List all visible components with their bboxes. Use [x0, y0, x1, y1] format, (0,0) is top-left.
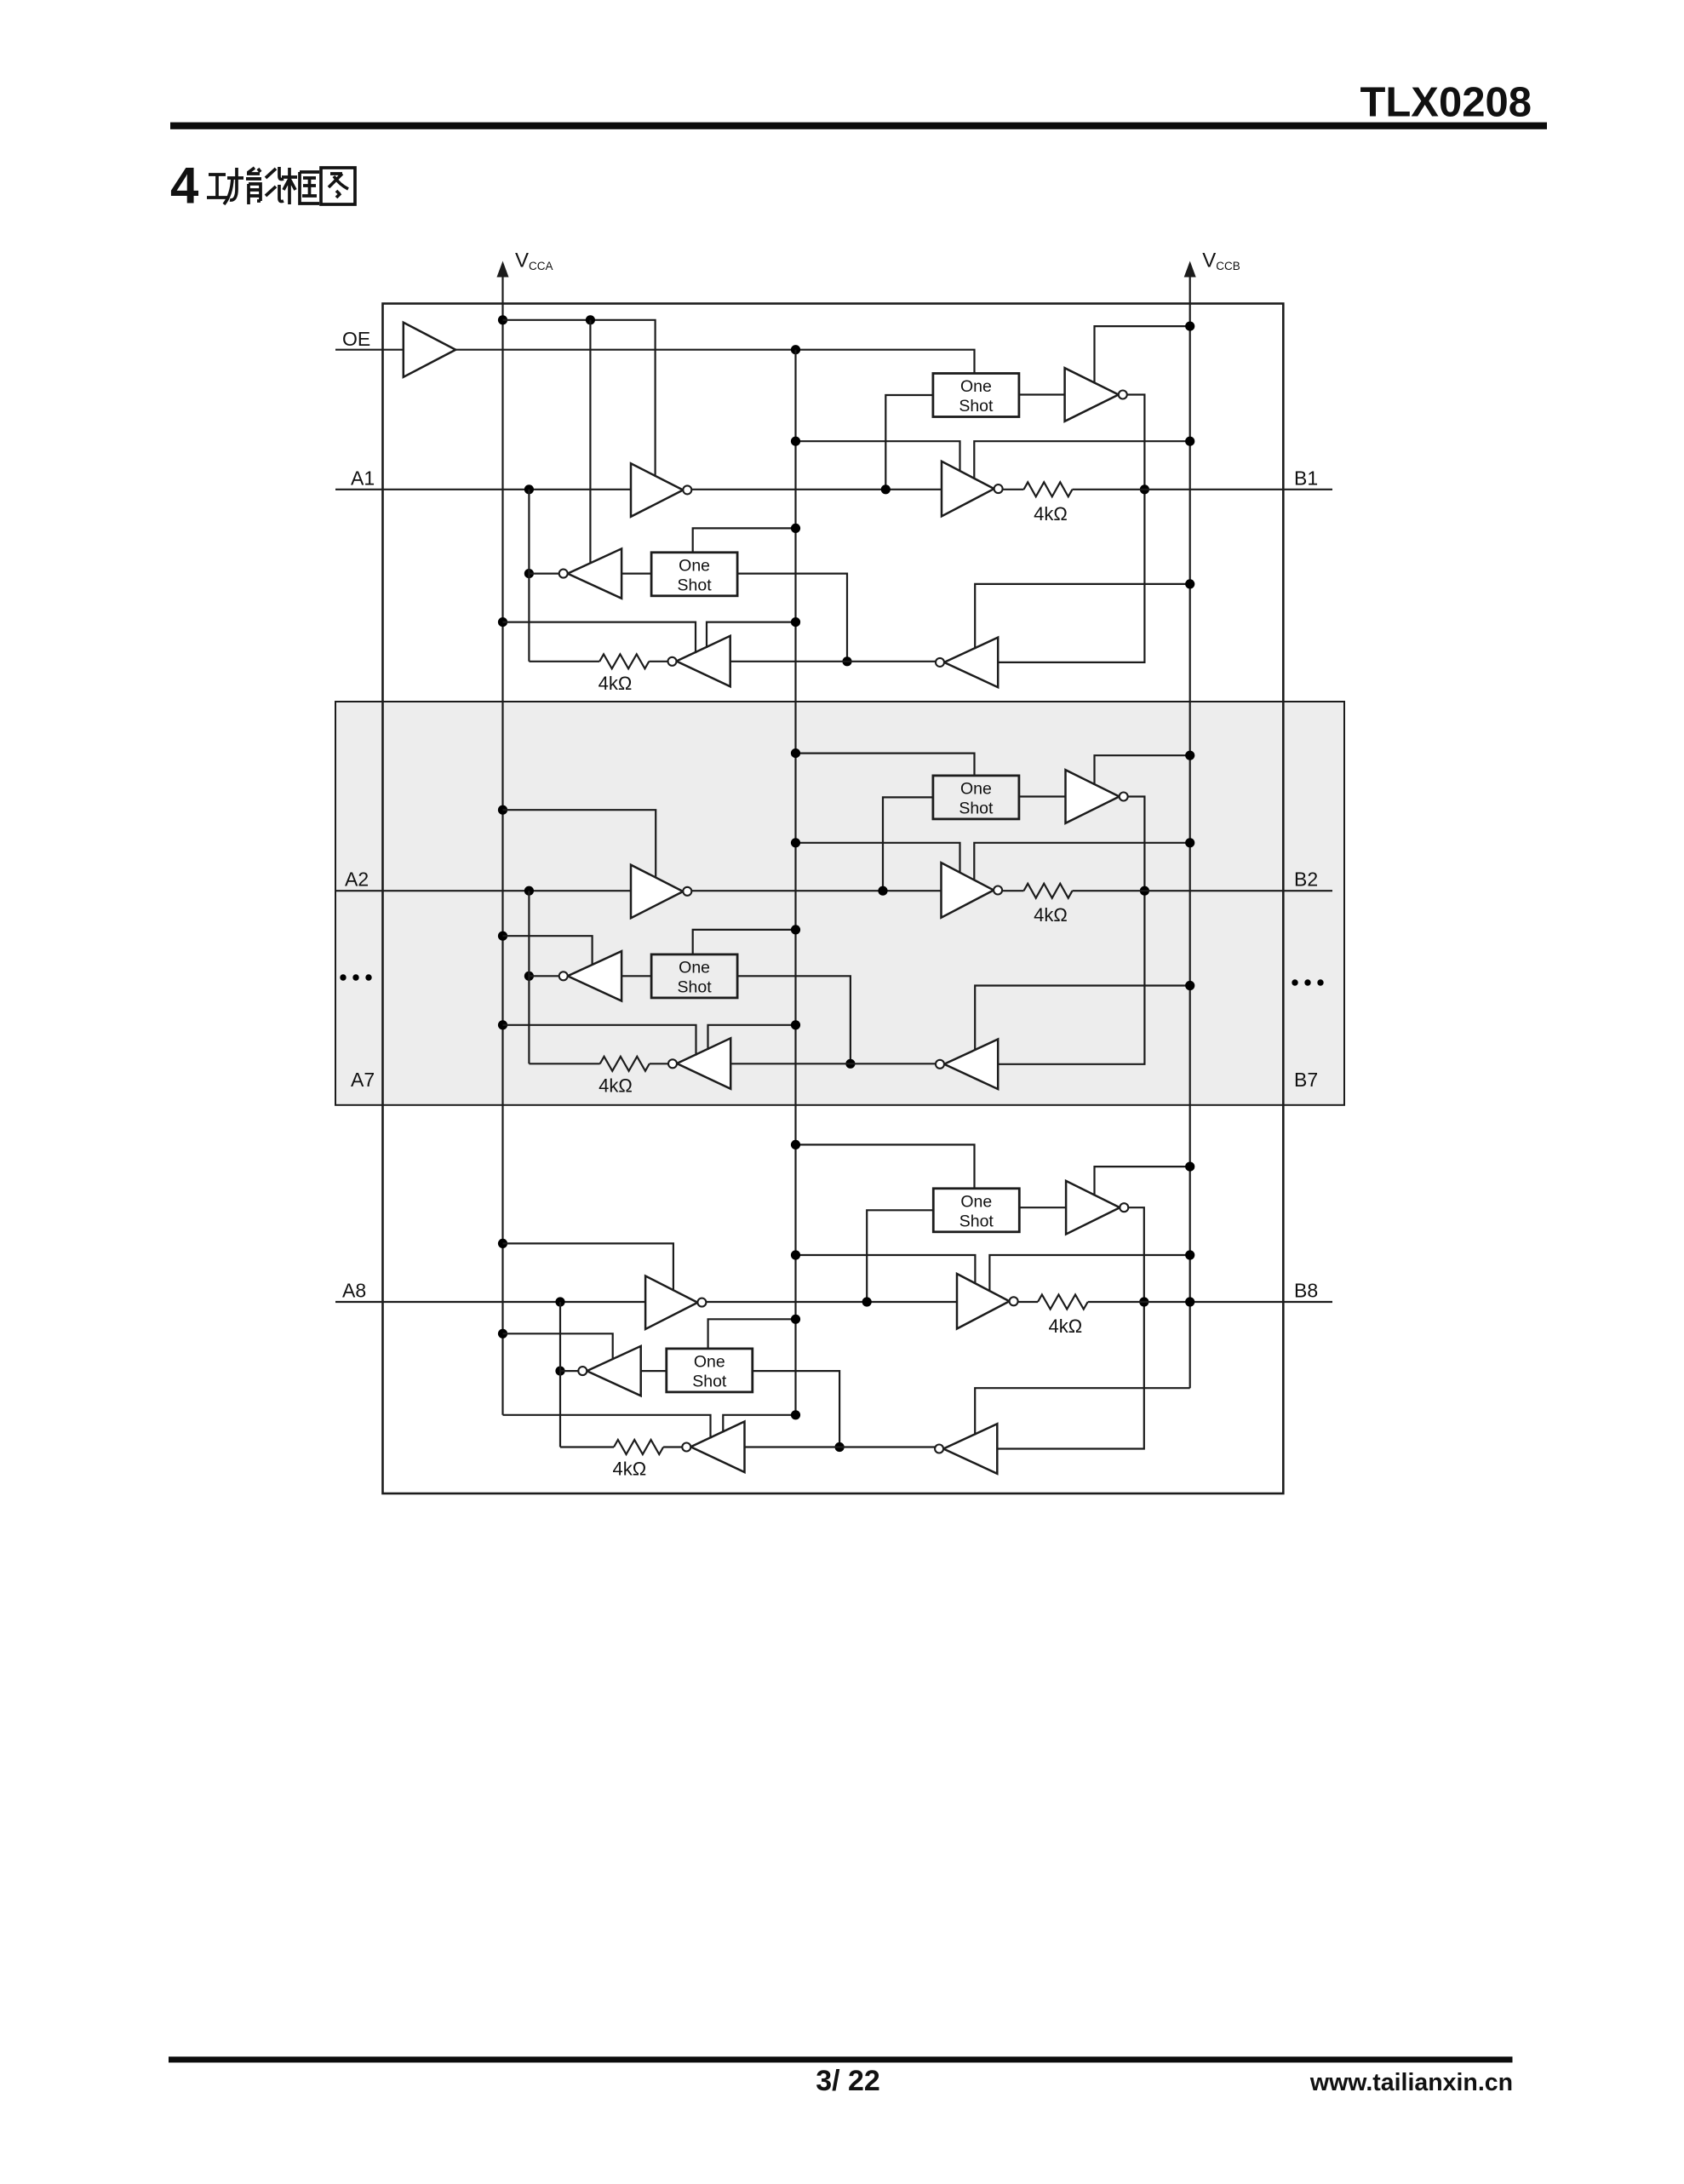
- svg-text:4kΩ: 4kΩ: [599, 1075, 633, 1096]
- wire B8 pad line: [1088, 1301, 1332, 1303]
- wire B1 recv enable: [975, 584, 1190, 649]
- junction enable-net B8: [791, 1250, 800, 1259]
- wire B1 feedback: [998, 395, 1144, 662]
- wire one-shot B8 out: [1019, 1207, 1066, 1208]
- inverter B1 receiver: [944, 638, 998, 688]
- junction VCCA enable ch8: [498, 1239, 507, 1248]
- svg-text:Shot: Shot: [959, 1212, 994, 1230]
- wire B2 feedback: [998, 797, 1144, 1064]
- wire one-shot A1 out: [737, 574, 847, 662]
- wire A8 resistor leads: [560, 1446, 614, 1447]
- svg-text:4kΩ: 4kΩ: [1034, 503, 1068, 525]
- junction A1 recv out: [524, 569, 534, 578]
- wire A8 low enable right: [723, 1415, 795, 1433]
- inverter A1 low driver: [677, 636, 730, 687]
- wire A8 driver out: [706, 1301, 867, 1303]
- wire B8 upper enable: [1095, 1167, 1190, 1195]
- wire B1 driver enable left: [796, 441, 960, 472]
- junction A8 input: [555, 1297, 564, 1306]
- svg-text:One: One: [679, 958, 710, 977]
- junction one-shot A2 out: [845, 1059, 855, 1069]
- svg-text:OE: OE: [342, 328, 370, 350]
- ellipsis right: [1292, 979, 1297, 985]
- inverter A8 driver: [645, 1276, 697, 1330]
- junction enable-net low ch2: [791, 1020, 800, 1029]
- svg-text:Shot: Shot: [959, 799, 994, 817]
- ellipsis left: [340, 974, 346, 980]
- junction A1 input: [524, 484, 534, 494]
- inverter B8 driver: [957, 1274, 1010, 1329]
- wire A8 pulldown path: [559, 1302, 561, 1447]
- junction VCCA enable ch2: [498, 805, 507, 815]
- inverter A1 receiver: [568, 548, 621, 598]
- svg-text:3/ 22: 3/ 22: [816, 2065, 880, 2097]
- shaded band channels 2-7: [335, 702, 1344, 1105]
- wire one-shot A1 trigger: [693, 528, 796, 552]
- bubble A8 receiver: [578, 1367, 587, 1375]
- junction one-shot A1 out: [842, 656, 851, 666]
- wire A2 recv out: [529, 975, 558, 977]
- junction enable-net low ch8: [791, 1410, 800, 1419]
- wire B8 drv to resistor: [1018, 1301, 1038, 1303]
- resistor 4k A2: [600, 1057, 650, 1071]
- junction VCCA low enable ch1: [498, 617, 507, 627]
- bubble A1 low driver: [668, 657, 677, 666]
- one-shot B8: [933, 1189, 1019, 1232]
- wire A8 driver enable: [503, 1243, 673, 1291]
- bubble B2 upper: [1120, 793, 1128, 801]
- svg-text:4: 4: [170, 158, 199, 215]
- wire A1 pulldown path: [528, 490, 530, 662]
- bubble B1 receiver: [936, 658, 944, 667]
- junction B8 pad: [1139, 1297, 1148, 1306]
- wire one-shot B8 trigger: [796, 1144, 975, 1188]
- wire B2 recv enable: [975, 986, 1190, 1052]
- wire A1 low enable left: [503, 622, 696, 654]
- inverter B1 driver: [942, 461, 994, 517]
- one-shot A2: [651, 954, 737, 998]
- junction enable-net B1: [791, 437, 800, 446]
- svg-text:Shot: Shot: [959, 397, 994, 416]
- wire A2 low enable right: [708, 1025, 796, 1050]
- wire A2 low enable left: [503, 1025, 696, 1056]
- junction VCCB upper enable ch8: [1185, 1162, 1194, 1172]
- junction A1 recv enable: [586, 315, 595, 324]
- wire one-shot A8 trigger: [708, 1319, 796, 1349]
- VCCA rail wire: [501, 272, 503, 1415]
- VCCB rail wire: [1189, 272, 1191, 1388]
- resistor 4k A1: [599, 654, 649, 668]
- bubble B8 upper: [1120, 1203, 1128, 1212]
- inverter A2 receiver: [568, 951, 621, 1000]
- bubble A8 driver: [697, 1298, 706, 1307]
- wire B1 driver enable right: [974, 441, 1189, 479]
- junction one-shot A2 trigger: [791, 925, 800, 934]
- junction one-shot B2 trigger: [791, 748, 800, 758]
- wire A8 low driver in: [745, 1446, 936, 1447]
- wire one-shot B8 in: [867, 1210, 933, 1302]
- one-shot A1: [651, 553, 737, 596]
- junction VCCA recv enable ch8: [498, 1329, 507, 1338]
- svg-text:B2: B2: [1294, 868, 1318, 891]
- wire B8 feedback: [997, 1207, 1144, 1448]
- junction B1 pad: [1140, 484, 1149, 494]
- wire A1 recv enable drop: [589, 320, 591, 565]
- wire B1 drv to resistor: [1003, 489, 1024, 490]
- junction enable-net B2: [791, 838, 800, 847]
- wire A1 low driver in: [730, 661, 936, 662]
- wire OE input: [335, 349, 404, 351]
- bubble A2 receiver: [559, 972, 568, 980]
- wire B1 pad line: [1073, 489, 1333, 490]
- svg-text:A8: A8: [342, 1280, 366, 1302]
- wire A1 driver enable: [503, 320, 656, 477]
- resistor 4k B2: [1024, 884, 1073, 898]
- wire mid to B1 driver: [885, 489, 942, 490]
- wire A2 recv in: [621, 975, 651, 977]
- inverter A1 driver: [631, 463, 683, 517]
- junction VCCB recv enable ch2: [1185, 981, 1194, 990]
- wire B1 upper enable: [1095, 326, 1190, 383]
- inverter B8 upper: [1066, 1181, 1120, 1235]
- heading text 功能框图 (drawn strokes): [207, 167, 355, 204]
- wire one-shot A8 out: [753, 1371, 839, 1447]
- bubble A1 receiver: [559, 570, 568, 578]
- svg-text:Shot: Shot: [678, 576, 713, 594]
- junction B8 rail crossing: [1185, 1297, 1194, 1306]
- wire A8 recv in: [641, 1370, 667, 1372]
- wire B8 driver enable left: [796, 1255, 976, 1284]
- one-shot A8: [667, 1349, 753, 1392]
- junction one-shot B8 in: [862, 1297, 872, 1306]
- wire B2 pad line: [1073, 890, 1333, 891]
- junction one-shot A8 out: [835, 1442, 845, 1452]
- wire one-shot B2 out: [1019, 795, 1066, 797]
- junction VCCB upper enable ch2: [1185, 751, 1194, 760]
- inverter A2 driver: [631, 865, 683, 918]
- bubble B1 upper: [1119, 391, 1127, 399]
- wire B8 driver enable right: [989, 1255, 1189, 1292]
- one-shot B2: [933, 776, 1019, 819]
- wire A8 recv out: [560, 1370, 578, 1372]
- wire A2 low driver in: [730, 1063, 936, 1064]
- inverter A8 receiver: [587, 1346, 640, 1396]
- bubble A8 low driver: [682, 1443, 690, 1452]
- junction one-shot B2 in: [878, 886, 887, 896]
- wire one-shot A2 trigger: [693, 930, 796, 954]
- inverter A2 low driver: [677, 1038, 730, 1089]
- svg-text:4kΩ: 4kΩ: [599, 673, 633, 694]
- svg-text:B8: B8: [1294, 1280, 1318, 1302]
- junction A2 input: [524, 886, 534, 896]
- inverter B2 driver: [942, 863, 994, 917]
- footer rule: [169, 2056, 1513, 2062]
- wire one-shot B1 in: [885, 395, 933, 490]
- wire A2 resistor leads: [529, 1063, 599, 1064]
- one-shot B1: [933, 374, 1019, 417]
- svg-text:One: One: [694, 1352, 725, 1371]
- svg-text:4kΩ: 4kΩ: [1049, 1316, 1083, 1337]
- junction VCCA enable ch1: [498, 315, 507, 324]
- wire A2 driver enable: [503, 810, 656, 878]
- resistor 4k B1: [1024, 482, 1073, 496]
- wire one-shot B1 out: [1019, 393, 1065, 395]
- svg-text:A1: A1: [351, 467, 375, 489]
- svg-text:4kΩ: 4kΩ: [612, 1459, 646, 1480]
- wire OE output to one-shot B1: [455, 350, 974, 374]
- wire VCCA turn ch8: [503, 1415, 711, 1439]
- resistor 4k B8: [1038, 1295, 1088, 1310]
- inverter B8 receiver: [943, 1424, 997, 1474]
- bubble B1 driver: [994, 484, 1003, 493]
- svg-text:www.tailianxin.cn: www.tailianxin.cn: [1309, 2069, 1513, 2096]
- bubble B2 driver: [994, 886, 1002, 895]
- wire A2 recv enable: [503, 936, 593, 966]
- inverter A8 low driver: [690, 1422, 744, 1473]
- svg-text:Shot: Shot: [692, 1372, 727, 1390]
- wire A2 pulldown path: [528, 891, 530, 1063]
- junction VCCA low enable ch2: [498, 1020, 507, 1029]
- wire A1 recv in: [621, 572, 651, 574]
- device outline box: [383, 304, 1284, 1494]
- wire A1 line: [335, 489, 631, 490]
- wire VCCB turn ch8: [975, 1388, 1190, 1435]
- inverter B2 receiver: [944, 1040, 998, 1090]
- wire mid to B2 driver: [883, 890, 942, 891]
- wire one-shot A2 out: [737, 976, 851, 1063]
- wire A2 line: [335, 890, 631, 891]
- wire mid to B8 driver: [867, 1301, 957, 1303]
- wire enable-net vertical: [794, 350, 796, 1415]
- svg-text:B7: B7: [1294, 1069, 1318, 1091]
- buffer OE: [404, 323, 455, 377]
- header rule: [170, 123, 1547, 129]
- junction VCCB upper enable ch1: [1185, 322, 1194, 331]
- wire B2 upper enable: [1095, 755, 1190, 785]
- inverter B1 upper: [1065, 368, 1119, 421]
- svg-text:One: One: [960, 1192, 992, 1211]
- wire A2 driver out: [691, 890, 883, 891]
- junction one-shot B1 in: [881, 484, 891, 494]
- wire one-shot B2 in: [883, 797, 933, 891]
- wire A1 low enable right: [707, 622, 796, 648]
- wire A8 recv enable: [503, 1333, 613, 1360]
- junction B2 pad: [1140, 886, 1149, 896]
- bubble B8 driver: [1010, 1297, 1018, 1305]
- junction A8 recv out: [555, 1367, 564, 1376]
- wire B2 drv to resistor: [1002, 890, 1023, 891]
- svg-text:A7: A7: [351, 1069, 375, 1091]
- wire A8 line: [335, 1301, 645, 1303]
- wire A1 resistor leads: [529, 661, 599, 662]
- svg-text:B1: B1: [1294, 467, 1318, 489]
- svg-text:One: One: [960, 779, 992, 798]
- wire B2 driver enable right: [974, 843, 1189, 881]
- junction one-shot B8 trigger: [791, 1140, 800, 1149]
- wire B2 driver enable left: [796, 843, 960, 874]
- VCCB arrowhead: [1184, 262, 1195, 277]
- svg-text:TLX0208: TLX0208: [1360, 80, 1532, 126]
- junction A2 recv out: [524, 972, 534, 981]
- junction OE/enable-net: [791, 345, 800, 354]
- svg-text:A2: A2: [345, 868, 369, 891]
- junction enable-net low ch1: [791, 617, 800, 627]
- junction one-shot A1 trigger: [791, 524, 800, 533]
- wire one-shot B2 trigger: [796, 754, 975, 776]
- junction VCCA recv enable ch2: [498, 931, 507, 941]
- svg-text:One: One: [960, 377, 992, 396]
- junction VCCB drv enable ch2: [1185, 838, 1194, 847]
- junction one-shot A8 trigger: [791, 1315, 800, 1324]
- bubble B8 receiver: [935, 1445, 943, 1453]
- VCCA arrowhead: [497, 262, 508, 277]
- junction VCCB drv enable ch8: [1185, 1250, 1194, 1259]
- bubble A1 driver: [683, 485, 691, 494]
- wire A1 driver out: [691, 489, 885, 490]
- junction VCCB recv enable ch1: [1185, 579, 1194, 588]
- svg-text:Shot: Shot: [678, 977, 713, 996]
- junction VCCB drv enable ch1: [1185, 437, 1194, 446]
- bubble A2 low driver: [668, 1059, 677, 1068]
- resistor 4k A8: [614, 1440, 663, 1454]
- bubble A2 driver: [683, 887, 691, 896]
- wire A1 recv out: [529, 572, 558, 574]
- bubble B2 receiver: [936, 1060, 944, 1069]
- svg-text:4kΩ: 4kΩ: [1034, 904, 1068, 926]
- svg-text:One: One: [679, 556, 710, 575]
- inverter B2 upper: [1066, 770, 1120, 823]
